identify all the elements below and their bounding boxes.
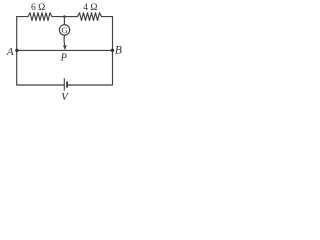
- battery V long plate: [63, 78, 65, 90]
- svg-text:A: A: [6, 46, 14, 58]
- wire left vertical: [16, 17, 18, 85]
- node B dot: [111, 49, 114, 52]
- battery V short plate: [66, 81, 68, 87]
- svg-text:V: V: [61, 91, 69, 103]
- resistor R2 4ohm: [78, 13, 102, 21]
- resistor R1 6ohm: [28, 13, 52, 21]
- galvanometer lead from junction: [63, 17, 65, 25]
- wire middle A-B: [17, 49, 113, 51]
- galvanometer U1 circle: [59, 25, 69, 35]
- wire top-left segment: [17, 16, 28, 18]
- jockey arrowhead at P: [63, 45, 67, 50]
- svg-text:B: B: [115, 45, 122, 57]
- node A dot: [15, 49, 18, 52]
- wire bottom-left segment: [17, 84, 64, 86]
- jockey arrow shaft to P: [63, 35, 66, 47]
- wire top-right segment: [102, 16, 113, 18]
- svg-text:6 Ω: 6 Ω: [31, 3, 45, 13]
- svg-text:P: P: [60, 52, 67, 63]
- svg-text:G: G: [61, 25, 68, 35]
- svg-text:4 Ω: 4 Ω: [83, 3, 97, 13]
- junction node on top wire: [63, 15, 66, 18]
- wire top-middle segment: [52, 16, 78, 18]
- wire bottom-right segment: [67, 84, 112, 86]
- wire right vertical: [112, 17, 114, 85]
